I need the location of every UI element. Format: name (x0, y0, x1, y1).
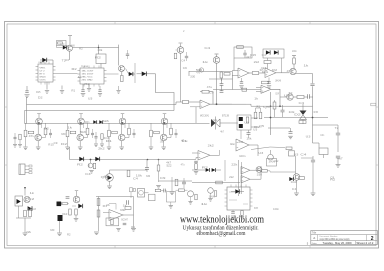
capacitor C17 (66, 196, 70, 198)
wire link y170 (110, 169, 148, 171)
wire MIC1 to box2 (145, 192, 149, 194)
node wire Q1 right to Q2 column (73, 47, 119, 49)
ground under C20 (25, 94, 30, 96)
resistor R3 (121, 76, 124, 82)
ground under C16 (336, 164, 341, 166)
wire L2 down (59, 221, 61, 233)
resistor R51 block 1 right (44, 128, 47, 135)
ground block 1 bottom (36, 146, 41, 148)
zone tick marks left (5, 106, 8, 108)
wire Q2/D3 junction (126, 69, 129, 75)
ground under U2 right (87, 88, 91, 90)
svg-text:1N4148: 1N4148 (209, 197, 216, 199)
svg-text:Title: Title (312, 231, 317, 234)
title block row line above date row (311, 240, 378, 242)
wire U2 pin down (82, 84, 84, 88)
svg-text:1IN+ 1OUT: 1IN+ 1OUT (82, 71, 95, 73)
ground under C5 (267, 85, 271, 87)
wire D13 leads (231, 191, 235, 193)
wire U13 output (123, 214, 134, 216)
svg-text:R15: R15 (314, 112, 319, 114)
wire R20 leads (158, 159, 160, 165)
satellite RC pair right of block 2 (95, 132, 97, 136)
resistor R27 (214, 191, 217, 197)
wire block 3 right leads (128, 123, 130, 128)
block 4 top stub (164, 114, 166, 118)
sheet border inner frame (7, 24, 376, 246)
wire C10 leads (248, 130, 250, 133)
wire lower chain links (161, 190, 164, 192)
wire main horizontal y159 (70, 159, 197, 161)
ground under x172 (170, 191, 175, 193)
U1 pin stubs top-bottom (40, 62, 42, 65)
junction dot y159 x90.5 (90, 159, 92, 161)
resistor R11b inline (242, 88, 247, 91)
svg-text:VFB 1: VFB 1 (40, 68, 47, 70)
wire amp top rail (96, 196, 134, 198)
block 3 upper stub pair (124, 123, 126, 128)
resistor R10 above Q5 (293, 58, 296, 64)
resistor R31 (62, 202, 68, 205)
wire feed down to y159 line (69, 147, 71, 160)
wire loop right leg (65, 45, 67, 47)
transistor Q14 block 1 (36, 118, 43, 125)
resistor R21b (155, 189, 161, 191)
ground under C15 (311, 192, 316, 194)
wire U2 pin down stub (88, 84, 90, 88)
resistor R48 block 3 mid (112, 131, 118, 134)
ground under Q11 (294, 192, 299, 194)
ground amp left (94, 231, 99, 233)
feedback loop box U13 (106, 218, 119, 226)
feedback loop box Q1 (57, 41, 67, 46)
wire D3 right lead (133, 73, 135, 75)
ground under Q9b (89, 170, 93, 172)
resistor R8 series (252, 72, 259, 75)
ground under Q13 (74, 218, 79, 220)
wire U7 inputs (256, 86, 261, 88)
U7 feedback resistor R11 (262, 81, 269, 84)
U2 pin stubs right (104, 70, 107, 72)
wire U4 output step (232, 103, 246, 105)
resistor R25b cluster A1 (286, 147, 292, 150)
ground under C23 (81, 93, 86, 95)
svg-text:Tuesday , May 26, 2009: Tuesday , May 26, 2009 (323, 241, 353, 245)
junction dot rail C block 3 (122, 122, 124, 124)
junction dot x158 y159 (158, 159, 160, 161)
resistor R17 vertical (259, 112, 262, 119)
ground block 4 left (149, 146, 153, 148)
junction dot rail C block 4 (164, 122, 166, 124)
wire R24 links (260, 170, 263, 172)
wire link Q11 to C15 column (301, 157, 313, 159)
wire vertical x225 down (220, 78, 222, 81)
wire block 1 right leads (45, 123, 47, 128)
wire x313 drop from Q5 (312, 74, 314, 84)
wire U9 output (249, 144, 258, 146)
wire block 2 left resistor leads (67, 123, 69, 130)
capacitor C2b right of Q3b (185, 55, 188, 57)
resistor R33 (75, 209, 78, 215)
wire LED1 top (109, 170, 111, 174)
wire long vertical x312.5 (312, 88, 314, 143)
capacitor C34 block 4 right (175, 132, 178, 134)
fuse F1 inline (176, 101, 183, 103)
wire block 2 right leads (87, 123, 89, 128)
ground block 3 left (107, 146, 111, 148)
capacitor C12 (182, 181, 186, 183)
svg-text:elbombaci@gmail.com: elbombaci@gmail.com (197, 231, 246, 237)
svg-text:Sheet 2 of 2: Sheet 2 of 2 (356, 241, 374, 245)
triac X1 (300, 111, 307, 116)
svg-text:A: A (313, 236, 315, 240)
connector J1 (19, 164, 25, 175)
diode D1 (63, 46, 67, 50)
U1 pin stubs right (53, 66, 56, 68)
resistor R18 (93, 163, 95, 169)
wire C6 to x313 (309, 96, 313, 98)
svg-text:5Z2: 5Z2 (167, 165, 173, 168)
wire x313 drop lower (312, 86, 314, 88)
wire R16 R17 tops (255, 108, 257, 112)
resistor R54 block 4 right (170, 128, 173, 135)
transistor Q9b (256, 167, 262, 173)
svg-text:100n: 100n (292, 51, 297, 53)
wire Q2 column from node (118, 45, 120, 66)
wire X2 bottom stub (323, 155, 325, 159)
resistor R28 (299, 177, 305, 180)
IC U2 (80, 68, 104, 84)
optocoupler U14 box (15, 196, 23, 206)
diode D12 (212, 168, 216, 172)
triac X2h horizontal (211, 119, 216, 127)
wire U10 out up stub (219, 150, 221, 155)
wire rail C horizontal y123 (25, 123, 210, 125)
wire X1 vertical (302, 104, 304, 111)
svg-text:smps tl494 uc3842 atx power su: smps tl494 uc3842 atx power supply (320, 238, 351, 241)
ground under R20 (156, 185, 161, 187)
transistor Q10 (208, 188, 214, 194)
capacitor C33 block 3 right (133, 132, 136, 134)
wire block 4 right leads (170, 123, 172, 128)
ground L1 (23, 232, 28, 234)
wire lower chain ground stub (170, 202, 172, 206)
transistor Q2 (119, 66, 125, 72)
wire box2 right edge down (281, 58, 283, 73)
satellite diode pair between blocks 2-3 (93, 120, 96, 123)
resistor R22 (195, 164, 198, 170)
wire Q13 top stub (76, 191, 78, 196)
J1 pin 1 (25, 165, 29, 167)
wire U1 pin down (46, 82, 48, 86)
led LED2 dark (57, 202, 62, 207)
ground L2 (57, 232, 62, 234)
U4 feedback resistor R6 (202, 90, 209, 93)
resistor R1 (58, 42, 63, 44)
wire C16 lower lead (337, 158, 339, 165)
wire D4 left lead (137, 73, 142, 75)
wire U6 output (276, 72, 289, 74)
svg-text:R15: R15 (48, 145, 54, 147)
resistor R52 block 2 right (86, 128, 89, 135)
capacitor C24 right of U3 (126, 53, 129, 55)
capacitor C2 (220, 90, 224, 92)
svg-text:BC547: BC547 (121, 220, 128, 222)
diode D11 (206, 168, 210, 172)
wire Q3 emitter column (216, 63, 218, 104)
transistor Q4 small (199, 68, 203, 72)
svg-text:OUT5: OUT5 (40, 80, 47, 82)
diode D4 (142, 72, 147, 77)
loop box lower chain (167, 192, 176, 203)
wire U9 input stub (240, 130, 242, 139)
J1 pin 2 (25, 168, 29, 170)
wire bus A left drop (26, 97, 28, 124)
wire long horizontal y89.7 (213, 89, 261, 91)
wire bus B right rise (173, 105, 175, 111)
transistor Q15 block 2 (78, 118, 85, 125)
wire U2 to Q2 cluster (107, 73, 119, 75)
resistor R43 block 3 left (108, 130, 111, 137)
svg-text:MOC3041: MOC3041 (200, 116, 210, 118)
capacitor C3 (243, 52, 246, 54)
transistor Q9 (268, 154, 274, 160)
diode D16 (78, 204, 82, 208)
U12 pin stubs left (225, 189, 228, 191)
op-amp U11b (241, 176, 250, 184)
capacitor C4 under U5 (240, 81, 243, 83)
microphone MIC1 box (138, 189, 145, 198)
wire rail C to X2h right segment (220, 122, 238, 124)
wire U14 led bottom (18, 206, 20, 218)
svg-text:1N4148: 1N4148 (275, 81, 282, 83)
capacitor C9 (336, 132, 340, 134)
junction dot x270 y117 (270, 117, 272, 119)
ground block 2 left (65, 146, 69, 148)
wire amp right column (133, 197, 135, 229)
zone connector mark right border (371, 103, 376, 106)
feedback box loop 1 (234, 47, 252, 58)
wire C11 leads (146, 159, 148, 168)
svg-text:www.teknolojiekibi.com: www.teknolojiekibi.com (180, 215, 264, 226)
transistor Q12 (24, 196, 30, 202)
wire R9 vertical links (267, 58, 269, 61)
diode D3 (129, 72, 133, 76)
resistor R37 (111, 219, 113, 225)
satellite RC pair far left (14, 133, 16, 137)
wire amp feedback (109, 204, 116, 210)
Q3b top stub (180, 44, 182, 47)
wire rail y117 (264, 117, 328, 119)
svg-text:1N4148: 1N4148 (269, 162, 276, 164)
wire Q5 emitter out (296, 73, 313, 75)
wire branch down at x90.5 (90, 159, 92, 163)
ground under C14 (231, 215, 235, 217)
wire vertical x236.5 (232, 72, 234, 90)
title block size column divider (317, 235, 319, 241)
svg-text:100n: 100n (85, 122, 91, 124)
op-amp U4 (200, 100, 210, 109)
block 1 upper stub pair (41, 123, 43, 128)
IC U1 (38, 64, 53, 82)
wire U1 to U2 (56, 73, 78, 75)
resistor R12 (297, 96, 304, 99)
wire R8 to U6 (259, 72, 265, 74)
svg-text:R15: R15 (250, 55, 257, 57)
box X2 connector (319, 148, 328, 155)
svg-text:100n: 100n (160, 141, 165, 143)
feedback box loop 2 (263, 49, 284, 58)
wire C7 leads (282, 105, 284, 110)
IC U3 small box (96, 54, 106, 64)
ground under R26 (240, 216, 244, 218)
block 2 top stub (80, 114, 82, 118)
resistor R16 vertical (254, 112, 257, 119)
diode D10 inline (95, 157, 99, 161)
transistor Q1 (67, 45, 73, 51)
resistor R7 (237, 46, 244, 49)
wire block 1 left resistor leads (25, 123, 27, 130)
wire U3 down to U2 (100, 64, 102, 69)
capacitor C6b inline x312 (310, 83, 314, 85)
resistor R49 block 4 mid (154, 131, 160, 134)
block 2 upper stub pair (83, 123, 85, 128)
wire staircase to box X2 (313, 143, 320, 148)
resistor R14 below X1 (299, 121, 306, 124)
wire Q1 to D1 (66, 47, 68, 49)
U8 resistor R15 (246, 117, 249, 123)
box X3 small (289, 151, 295, 156)
junction dot x270 y106 (270, 105, 272, 107)
loop box Q9 (267, 159, 277, 167)
capacitor C21 stub (46, 86, 48, 90)
wire U4 minus input down (195, 107, 197, 123)
transistor Q17 block 4 (161, 118, 168, 125)
svg-text:100n: 100n (273, 209, 279, 211)
wire C12 leads (183, 178, 185, 182)
resistor R53 block 3 right (128, 128, 131, 135)
transistor Q13 (73, 196, 80, 203)
transistor Q9b small (88, 163, 93, 168)
ground Q14b (188, 201, 192, 203)
wire bus B horizontal y110 (25, 110, 175, 112)
resistor R35 (97, 210, 100, 217)
ground under C25 (98, 93, 102, 95)
capacitor C14 under U12 (231, 211, 235, 213)
wire D2 to U1 (47, 59, 53, 61)
resistor R20 (157, 165, 160, 171)
wire block 4 emitter down (163, 141, 165, 147)
ground under Q10 (208, 198, 212, 200)
ground under C22 (60, 90, 64, 92)
transistor Q22 block 4 lower (160, 134, 167, 141)
capacitor C1 (220, 83, 224, 85)
block 3 top stub (122, 114, 124, 118)
resistor R32 (69, 209, 72, 215)
resistor R30 (29, 210, 32, 217)
resistor R23 on rail (216, 181, 223, 184)
wire rail y182.5 (192, 182, 240, 184)
svg-text:1N4148: 1N4148 (71, 46, 75, 48)
svg-text:Date:: Date: (312, 242, 318, 245)
junction dot y159 x147 (147, 159, 149, 161)
transistor Q14b lower chain (188, 191, 194, 197)
wire block 4 left resistor leads (150, 123, 152, 130)
wire Q11 emitter down (296, 180, 298, 192)
wire L1 bottom rail (16, 217, 31, 219)
wire box1 down to U5 (233, 58, 235, 71)
capacitor C18 (126, 200, 128, 204)
title block row line under Title (311, 234, 378, 236)
capacitor C31 block 1 right (49, 132, 52, 134)
wire U4 output (210, 103, 232, 105)
wire Q2 emitter to R3 (121, 72, 123, 76)
wire horizontal link y71 (189, 71, 233, 73)
resistor R24 (262, 170, 268, 173)
wire R12 to C6 (304, 96, 308, 98)
transistor Q6 (287, 94, 293, 100)
transistor Q21 block 3 lower (118, 134, 125, 141)
resistor R36 (125, 207, 131, 210)
capacitor C22 stub (61, 86, 63, 90)
junction dot rail C block 2 (80, 122, 82, 124)
resistor R26 under U12 (241, 211, 243, 216)
wire amp left column (98, 197, 100, 232)
U12 pin stubs top (230, 185, 232, 188)
title block outline (311, 231, 378, 245)
wire bus A horizontal y104.5 (27, 104, 177, 106)
ground under C8 (288, 135, 293, 137)
box small U15 (149, 194, 156, 201)
wire U11b output (250, 178, 261, 180)
wire branch y125 to C9 (313, 124, 339, 126)
diode D15 (28, 206, 32, 210)
diode D13 (235, 189, 239, 193)
capacitor C32 block 2 right (91, 132, 94, 134)
svg-text:1N4148: 1N4148 (30, 209, 36, 211)
U8 led D8 (239, 124, 243, 128)
wire U13 input (103, 212, 109, 214)
svg-text:KA431: KA431 (39, 61, 46, 64)
transistor Q16 block 3 (119, 118, 126, 125)
resistor R5 (224, 73, 230, 76)
wire stub x118 down (118, 86, 120, 90)
junction dot x312 y117 (312, 117, 314, 119)
ground lower chain (169, 205, 173, 207)
diode D2 (42, 58, 47, 63)
wire L1 input arrow (24, 187, 26, 196)
capacitor C7 (281, 109, 285, 111)
wire U10 inputs from y159 line (196, 158, 198, 160)
op-amp U11a (241, 167, 250, 175)
wire vertical x189 (188, 71, 190, 76)
wire block 3 down from transistor (121, 123, 123, 134)
U2 pin stubs top-bottom (83, 66, 85, 69)
wire Q9 collector up (270, 150, 272, 154)
block 4 upper stub pair (166, 123, 168, 128)
diode D14 (289, 177, 293, 181)
dark component SQ1 (58, 215, 63, 221)
capacitor C25 stub x100 (99, 86, 101, 90)
junction dot x280 y106 (279, 105, 281, 107)
svg-text:1IN- 2OUT: 1IN- 2OUT (82, 74, 95, 76)
wire U11a output (250, 169, 261, 171)
wire C9 leads (337, 125, 339, 133)
op-amp U5 (238, 68, 249, 78)
wire U9 out drop (257, 145, 259, 156)
capacitor C10 (247, 132, 251, 134)
svg-text:BC547: BC547 (276, 93, 280, 95)
